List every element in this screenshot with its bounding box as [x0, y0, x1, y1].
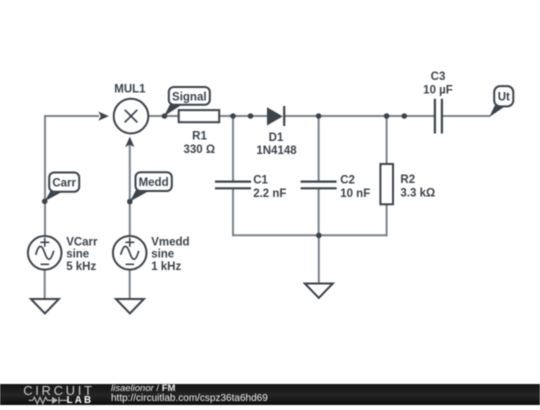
resistor R1 [179, 110, 220, 156]
wire ground stem (rail) [318, 235, 320, 283]
svg-text:R1: R1 [192, 130, 207, 142]
node dot before D1 [248, 113, 254, 119]
svg-text:MUL1: MUL1 [114, 84, 146, 96]
node dot after R1 (C1 junction) [230, 113, 236, 119]
wire Medd vertical [129, 144, 131, 236]
svg-text:C1: C1 [253, 175, 268, 187]
diode D1 [256, 106, 297, 157]
wire VCarr bottom lead [44, 270, 46, 299]
svg-text:R2: R2 [400, 174, 415, 186]
wire VCarr top lead [44, 235, 46, 237]
wire R2 branch upper [386, 116, 388, 164]
arrowhead into MUL1 bottom [125, 137, 134, 148]
svg-text:C3: C3 [431, 71, 446, 83]
svg-text:10 nF: 10 nF [340, 188, 370, 200]
wire C1 branch lower [232, 188, 234, 236]
svg-text:Ut: Ut [498, 92, 510, 104]
svg-text:2.2 nF: 2.2 nF [253, 188, 286, 200]
node dot Carr [42, 199, 48, 205]
capacitor C1 [215, 175, 286, 201]
flag Carr [45, 173, 79, 202]
flag Medd [130, 172, 172, 201]
ground under Vmedd [116, 299, 144, 313]
wire R2 branch lower [386, 204, 388, 236]
svg-text:330 Ω: 330 Ω [183, 144, 215, 156]
svg-text:5 kHz: 5 kHz [66, 261, 96, 273]
wire left horizontal into MUL1 [45, 115, 99, 117]
node dot before C3 [402, 113, 408, 119]
ground under VCarr [31, 299, 59, 313]
wire C2 branch lower [318, 188, 320, 236]
svg-text:Signal: Signal [172, 91, 207, 103]
wire C3 to Ut [442, 115, 490, 117]
svg-text:D1: D1 [269, 132, 284, 144]
wire left vertical (Carr branch) [44, 115, 46, 236]
svg-text:LAB: LAB [67, 395, 94, 405]
arrowhead into MUL1 left [98, 112, 109, 121]
flag Signal [164, 87, 210, 116]
footer bar [0, 384, 540, 405]
capacitor C2 [301, 175, 371, 201]
svg-text:C2: C2 [340, 175, 355, 187]
svg-text:VCarr: VCarr [66, 236, 98, 248]
multiplier U MUL1 [114, 84, 149, 134]
svg-text:sine: sine [66, 249, 89, 261]
flag Ut [489, 86, 513, 117]
CircuitLab logo [0, 383, 110, 405]
svg-text:Medd: Medd [139, 177, 169, 189]
svg-text:Carr: Carr [52, 177, 76, 189]
node dot C2 junction [316, 113, 322, 119]
wire R1 to D1 [219, 115, 267, 117]
voltage source VCarr [28, 236, 98, 273]
svg-text:1 kHz: 1 kHz [151, 261, 181, 273]
svg-text:3.3 kΩ: 3.3 kΩ [400, 187, 435, 199]
wire Vmedd bottom lead [129, 270, 131, 299]
capacitor C3 [423, 71, 453, 134]
resistor R2 [380, 164, 435, 204]
svg-text:1N4148: 1N4148 [256, 145, 297, 157]
node dot R2 junction [384, 113, 390, 119]
node dot Medd [127, 199, 133, 205]
svg-text:Vmedd: Vmedd [151, 236, 189, 248]
node dot Signal [162, 113, 168, 119]
ground under rail [305, 284, 333, 298]
node dot rail ground junction [316, 233, 322, 239]
wire MUL1 to R1 [148, 115, 178, 117]
wire bottom rail [232, 234, 388, 236]
wire C1 branch upper [232, 116, 234, 182]
svg-text:sine: sine [151, 249, 174, 261]
voltage source Vmedd [113, 236, 190, 273]
svg-text:10 µF: 10 µF [423, 84, 453, 96]
wire C2 branch upper [318, 116, 320, 182]
wire D1 to C3 [284, 115, 435, 117]
